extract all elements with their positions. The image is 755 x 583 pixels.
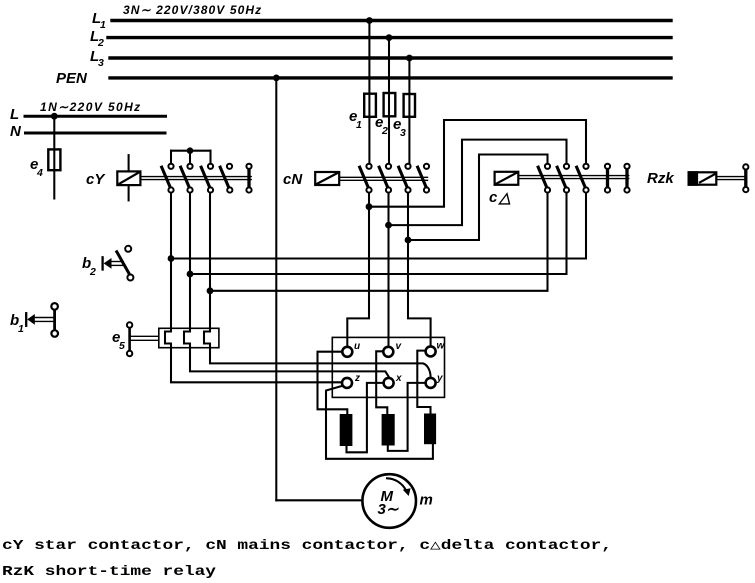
svg-text:cY: cY [86,171,106,188]
svg-text:Rzk: Rzk [647,170,674,187]
svg-text:RzK short-time relay: RzK short-time relay [2,565,216,580]
svg-text:L: L [10,106,19,123]
svg-text:4: 4 [36,167,43,179]
svg-text:2: 2 [381,125,388,137]
svg-text:3N∼ 220V/380V 50Hz: 3N∼ 220V/380V 50Hz [123,3,262,17]
svg-text:w: w [437,341,446,352]
svg-text:cN: cN [283,171,303,188]
svg-text:2: 2 [89,266,96,278]
svg-text:y: y [436,373,443,384]
svg-text:1: 1 [356,119,362,131]
svg-text:1: 1 [18,323,24,335]
svg-text:5: 5 [119,340,125,352]
svg-text:z: z [354,373,360,384]
svg-text:△: △ [497,190,511,207]
svg-text:c: c [489,189,498,206]
svg-text:x: x [395,373,402,384]
svg-text:3∼: 3∼ [378,501,399,518]
svg-text:PEN: PEN [56,70,88,87]
svg-text:u: u [354,341,360,352]
svg-text:m: m [420,492,433,509]
svg-text:1: 1 [100,19,106,31]
svg-text:1N∼220V 50Hz: 1N∼220V 50Hz [40,100,142,114]
svg-text:3: 3 [98,57,104,69]
svg-text:3: 3 [400,127,406,139]
svg-text:N: N [10,123,22,140]
svg-text:cY star contactor, cN mains co: cY star contactor, cN mains contactor, c… [2,539,612,554]
